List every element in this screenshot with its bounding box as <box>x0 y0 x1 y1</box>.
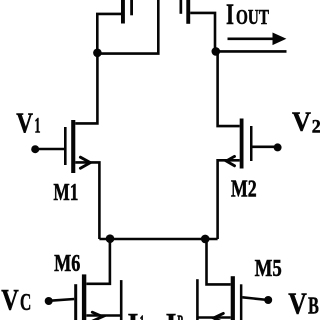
svg-text:V: V <box>1 283 19 316</box>
svg-text:I: I <box>128 307 139 320</box>
svg-text:OUT: OUT <box>236 7 269 29</box>
svg-text:M1: M1 <box>53 180 78 206</box>
svg-text:I: I <box>226 0 234 31</box>
svg-text:V: V <box>292 106 311 136</box>
svg-text:I: I <box>166 307 177 320</box>
svg-text:M5: M5 <box>255 256 282 282</box>
svg-text:B: B <box>177 310 183 320</box>
svg-text:V: V <box>16 108 33 139</box>
svg-text:1: 1 <box>34 112 40 137</box>
svg-text:M2: M2 <box>231 176 257 202</box>
svg-text:2: 2 <box>312 116 320 137</box>
svg-text:B: B <box>308 294 319 320</box>
svg-text:1: 1 <box>140 310 145 320</box>
svg-text:C: C <box>20 289 31 316</box>
svg-text:M6: M6 <box>54 251 80 277</box>
svg-text:V: V <box>288 286 307 320</box>
